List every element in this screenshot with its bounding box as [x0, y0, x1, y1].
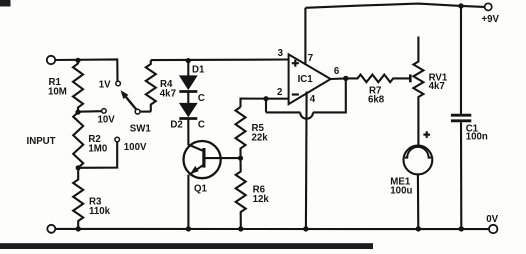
wire input to 1V corner: [55, 59, 117, 81]
wire feedback bottom left: [266, 111, 300, 113]
node Q1 emitter rail junction: [186, 226, 191, 231]
svg-text:0V: 0V: [486, 214, 498, 225]
svg-text:INPUT: INPUT: [27, 136, 56, 147]
resistor R3: [73, 168, 83, 229]
svg-text:D2: D2: [170, 119, 182, 130]
svg-text:2: 2: [277, 87, 282, 98]
resistor R2: [73, 112, 83, 168]
contact 100V: [115, 137, 120, 142]
wire feedback bottom right: [313, 78, 346, 112]
meter ME1: [404, 146, 433, 175]
svg-text:10V: 10V: [98, 115, 116, 126]
resistor R5: [236, 107, 246, 158]
wire R5 top corner: [241, 99, 289, 107]
potentiometer RV1: [413, 37, 423, 146]
wire pin7 to +9V rail: [304, 8, 306, 64]
wire Q1 emitter to rail: [187, 175, 189, 229]
svg-text:4k7: 4k7: [160, 88, 176, 99]
node pin2 feedback junction: [263, 96, 268, 101]
svg-text:6: 6: [334, 66, 340, 77]
node D1 junction: [186, 58, 191, 63]
node R6 rail junction: [238, 226, 243, 231]
wire feedback hop over pin4: [300, 112, 313, 118]
wire Q1 base to R5/R6: [206, 157, 241, 159]
svg-text:10M: 10M: [48, 87, 67, 98]
contact 10V: [102, 109, 107, 114]
resistor R4: [146, 60, 156, 112]
label meter plus: [423, 134, 430, 136]
svg-text:4: 4: [310, 94, 316, 105]
svg-text:110k: 110k: [89, 206, 111, 217]
wire C1 top: [460, 6, 462, 114]
svg-text:1V: 1V: [99, 80, 111, 91]
resistor R6: [236, 158, 246, 229]
node C1 top rail junction: [458, 3, 463, 8]
node output junction: [343, 76, 348, 81]
resistor R1: [73, 60, 83, 112]
wire D2 to Q1 collector: [188, 119, 202, 151]
svg-text:7: 7: [308, 53, 313, 64]
wire pole to R4: [140, 111, 151, 113]
svg-text:C: C: [198, 119, 205, 130]
capacitor C1: [451, 114, 471, 117]
diode D2: [179, 103, 198, 117]
scan mark bottom strip: [0, 243, 373, 249]
resistor R7: [346, 75, 409, 83]
svg-text:3: 3: [278, 48, 284, 59]
node R1/R2/10V junction: [75, 110, 80, 115]
wire feedback left drop: [265, 99, 267, 113]
wire D1 to D2: [187, 92, 189, 104]
scan mark top-left corner: [0, 0, 11, 7]
wire 100V to R2/R3 junction: [81, 142, 118, 168]
svg-text:22k: 22k: [252, 133, 269, 144]
wire top +9V rail: [305, 4, 484, 8]
op-amp IC1: [289, 54, 331, 104]
terminal input top: [47, 56, 55, 64]
node R2/R3/100V junction: [76, 165, 81, 170]
svg-text:IC1: IC1: [298, 74, 314, 85]
svg-text:100n: 100n: [466, 132, 488, 143]
svg-text:100u: 100u: [390, 185, 412, 196]
svg-text:Q1: Q1: [194, 183, 208, 194]
node pin4 rail junction: [303, 226, 308, 231]
diode D1: [187, 61, 189, 76]
contact 1V: [116, 81, 121, 86]
terminal input bottom: [47, 225, 55, 233]
wire R4/D1 to op-amp pin3: [151, 58, 289, 61]
wire to 10V contact: [78, 110, 102, 113]
switch SW1 pole: [135, 109, 140, 114]
svg-text:6k8: 6k8: [368, 94, 385, 105]
svg-text:C: C: [198, 93, 205, 104]
node R3 bottom rail junction: [76, 226, 81, 231]
svg-text:12k: 12k: [253, 194, 270, 205]
node C1 rail junction: [459, 226, 464, 231]
svg-text:D1: D1: [192, 64, 205, 75]
terminal 0V: [489, 225, 497, 233]
svg-text:100V: 100V: [124, 142, 147, 153]
svg-text:+9V: +9V: [482, 14, 500, 25]
wire pin4 to 0V rail: [305, 92, 308, 229]
wire ME1 to rail: [417, 174, 419, 229]
terminal +9V: [485, 3, 492, 10]
node input/R1 junction: [75, 58, 80, 63]
svg-text:4k7: 4k7: [429, 81, 445, 92]
svg-text:1M0: 1M0: [88, 144, 107, 155]
transistor Q1: [184, 141, 221, 178]
wire C1 bottom: [460, 122, 462, 229]
wire bottom 0V rail: [55, 228, 489, 230]
switch SW1 arm with arrow: [126, 97, 136, 110]
potentiometer RV1 wiper bar: [409, 74, 412, 82]
wire op-amp output: [331, 77, 346, 80]
node ME1 rail junction: [416, 226, 421, 231]
node Q1 base / R5 / R6 junction: [238, 156, 243, 161]
svg-text:SW1: SW1: [130, 123, 152, 134]
